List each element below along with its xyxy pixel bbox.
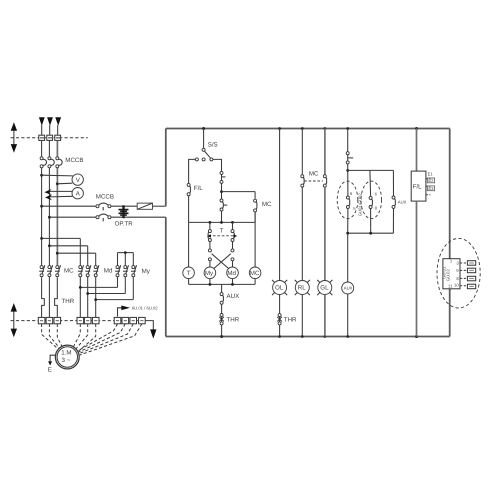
MCCB main breaker 3-pole (40, 157, 83, 168)
My to Md tie row 1 (79, 277, 118, 289)
svg-text:AUX: AUX (344, 286, 353, 291)
motor terminal boxes X Y Z (77, 317, 99, 323)
contact MC (NO) above RL (301, 175, 304, 187)
svg-text:6U.01 / 6U.02: 6U.01 / 6U.02 (132, 306, 159, 311)
lamp branch RL wire upper (301, 129, 303, 175)
motor lead lines right group (79, 324, 142, 355)
wire to external arrow (145, 321, 157, 339)
svg-text:Md: Md (104, 268, 113, 275)
dashed ellipse GU second (361, 181, 382, 219)
My to Md tie row 3 (94, 277, 133, 301)
link arrow 6U.01/6U.02 (118, 306, 159, 317)
phase line R (x=41.6) (41, 140, 43, 157)
contactor My star contacts with star-point bus (115, 251, 151, 277)
svg-text:11: 11 (448, 284, 453, 289)
phase line T (x=57.3) (56, 140, 58, 157)
control circuit frame: right edge rail (449, 129, 451, 337)
svg-text:MCCB: MCCB (65, 157, 83, 164)
dashed ellipse around terminal unit (437, 238, 480, 308)
contactor coil Md (227, 267, 239, 279)
boundary double arrow bottom (11, 303, 17, 337)
dashed ellipse GU.01/GU.02 first (337, 181, 362, 219)
wire phase R to control breaker (40, 205, 43, 208)
svg-text:E3: E3 (428, 186, 434, 191)
earth connection E (48, 355, 56, 373)
MCCB control breaker 2-pole (96, 194, 114, 222)
Md columns down to terminals (79, 277, 81, 318)
contact NC at top of AUX branch (346, 152, 353, 164)
wire S/S left throw to F/L branch (189, 159, 196, 183)
control circuit frame: top rail L1 (166, 128, 450, 130)
bottom rail junction dots (220, 335, 223, 338)
indicator lamp RL (295, 187, 310, 336)
relay coil AUX (342, 233, 354, 336)
terminal row dashed line (11, 320, 145, 322)
coil section bottom rail (189, 279, 256, 293)
svg-text:F/L: F/L (194, 185, 203, 192)
timer T linked contacts (207, 222, 237, 241)
motor lead curves middle group (73, 324, 95, 351)
voltmeter V (40, 174, 83, 186)
svg-text:GU01/GU02: GU01/GU02 (358, 192, 363, 216)
ammeter A with CT clip arrows (44, 188, 83, 201)
parallel group bottom tie (346, 208, 393, 234)
My to Md tie row 2 (86, 277, 125, 295)
contactor MC main contacts (39, 265, 74, 277)
svg-text:T: T (187, 270, 191, 277)
svg-text:OP.TR: OP.TR (115, 221, 134, 228)
F/L branch down to coil rail (188, 196, 190, 223)
svg-text:MCCB: MCCB (96, 194, 114, 201)
svg-text:1.M: 1.M (61, 350, 71, 357)
svg-text:T: T (220, 228, 224, 235)
indicator lamp GL (317, 187, 332, 336)
phase line S (x=49.4) (48, 140, 50, 157)
AUX branch upper wire (347, 129, 349, 152)
svg-text:E2: E2 (428, 178, 434, 183)
svg-text:F/L: F/L (413, 184, 422, 191)
control fuse box (137, 203, 166, 209)
terminal unit pin stubs (460, 263, 467, 286)
GU contact 1 (pins 5-6) (346, 191, 356, 211)
relay F/L box with E1 E2 E3 (411, 129, 434, 337)
motor 1.M 3~ (55, 345, 79, 369)
svg-text:AUX: AUX (227, 293, 240, 300)
contact MC (NC) above GL (323, 129, 326, 188)
contact NO with bar (start chain) (220, 199, 227, 211)
jumper R to Md bank (40, 237, 43, 240)
svg-text:My: My (142, 268, 151, 275)
svg-text:S/S: S/S (208, 141, 218, 148)
wire S/S right throw to main branch (213, 159, 222, 171)
thermal relay THR heater cranks (42, 277, 75, 318)
svg-text:OL: OL (275, 284, 284, 291)
operating transformer OP.TR (115, 205, 134, 227)
contact THR trip on main branch (219, 314, 239, 325)
wire breaker to op-transformer and fuse (111, 205, 137, 207)
svg-text:3 ~: 3 ~ (62, 357, 71, 364)
terminal unit GU.01/GU.02 box (442, 259, 460, 289)
svg-text:AUX: AUX (398, 199, 407, 204)
contactor coil My (204, 267, 216, 279)
motor terminal boxes U V W (38, 317, 60, 323)
contactor coil MC (249, 212, 261, 279)
contact AUX (NO) on main branch (220, 293, 239, 305)
supply fuse boxes on dashed line (39, 135, 61, 140)
contact MC self-holding (NO) (254, 192, 272, 223)
svg-text:MC: MC (250, 270, 260, 277)
crossed interlock wires (212, 254, 230, 270)
svg-text:THR: THR (227, 317, 240, 324)
main branch node (221, 183, 223, 199)
coil section top rail (189, 221, 256, 223)
contact NC (stop chain) on main branch (220, 171, 226, 183)
control circuit frame: left feeder upper (165, 129, 167, 207)
control circuit frame: bottom rail L2 (166, 336, 450, 338)
external terminal small boxes (467, 261, 475, 289)
incoming supply arrows R S T (39, 117, 61, 135)
svg-text:RL: RL (298, 284, 306, 291)
GU contact 2 (pins 6-8) (369, 191, 378, 210)
timer coil T (183, 222, 195, 278)
svg-text:E: E (48, 367, 52, 374)
selector switch S/S (195, 129, 217, 161)
svg-text:MC: MC (64, 268, 74, 275)
svg-text:My: My (205, 270, 214, 277)
svg-text:MC: MC (262, 201, 272, 208)
boundary double arrow top (11, 122, 17, 153)
wire node to MC self-hold branch (222, 191, 256, 193)
contact AUX parallel (NO) (392, 196, 407, 208)
svg-text:Md: Md (227, 270, 236, 277)
indicator lamp OL (272, 280, 287, 295)
svg-text:THR: THR (284, 317, 297, 324)
lamp branch OL wire (279, 129, 281, 281)
motor lead curves left group (42, 324, 65, 352)
incoming boundary dashed line (11, 137, 88, 139)
jumper T to Md bank (56, 252, 59, 255)
control circuit frame: left feeder lower (165, 217, 167, 336)
interlock contacts below timer (208, 242, 234, 268)
svg-text:THR: THR (62, 298, 75, 305)
auxiliary terminal boxes (114, 317, 145, 323)
svg-text:MC: MC (309, 171, 319, 178)
relay contact F/L (NO) (187, 183, 203, 195)
svg-text:GU.02: GU.02 (445, 269, 450, 282)
jumper S to Md bank (48, 244, 51, 247)
svg-text:10: 10 (454, 283, 459, 288)
top rail junction dots (202, 127, 205, 130)
node to parallel GU contacts (346, 164, 393, 197)
svg-text:GL: GL (320, 284, 329, 291)
svg-text:E1: E1 (428, 172, 434, 177)
contact THR trip under OL (277, 314, 297, 325)
contactor Md delta contacts (78, 265, 113, 277)
wire phase S to control breaker (48, 216, 51, 219)
MC linked pair dashed link and label (304, 171, 323, 181)
